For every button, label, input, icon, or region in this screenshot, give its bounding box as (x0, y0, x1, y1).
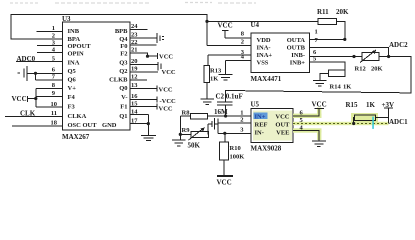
svg-text:VCC: VCC (162, 69, 176, 76)
svg-text:GND: GND (102, 122, 117, 129)
svg-text:OPOUT: OPOUT (68, 43, 92, 50)
svg-text:V-: V- (121, 94, 127, 101)
svg-text:VCC: VCC (159, 106, 173, 113)
svg-text:R10: R10 (230, 145, 241, 152)
svg-text:ADC0: ADC0 (17, 55, 36, 63)
svg-text:INB: INB (68, 28, 80, 35)
svg-text:ADC1: ADC1 (389, 118, 408, 126)
svg-text:20K: 20K (336, 8, 349, 16)
svg-text:2: 2 (240, 117, 243, 124)
svg-text:F2: F2 (120, 51, 127, 58)
svg-text:1: 1 (52, 25, 55, 32)
svg-text:F0: F0 (120, 43, 127, 50)
svg-text:INB+: INB+ (290, 60, 306, 67)
svg-text:R9: R9 (182, 127, 191, 134)
svg-text:OPIN: OPIN (68, 51, 85, 58)
svg-text:U3: U3 (62, 15, 71, 23)
svg-text:VCC: VCC (159, 54, 173, 61)
svg-text:VCC: VCC (218, 22, 233, 30)
svg-text:16: 16 (131, 93, 138, 100)
svg-text:V+: V+ (68, 85, 77, 92)
svg-text:VCC: VCC (312, 101, 327, 109)
svg-text:Q0: Q0 (119, 85, 127, 92)
svg-text:ADC2: ADC2 (389, 41, 408, 49)
svg-text:23: 23 (131, 32, 138, 39)
svg-text:Q3: Q3 (119, 60, 128, 67)
svg-text:OUT: OUT (275, 122, 290, 129)
svg-text:2: 2 (52, 33, 55, 40)
svg-text:C2 0.1uF: C2 0.1uF (216, 93, 243, 101)
svg-text:18: 18 (51, 120, 58, 127)
svg-text:VCC: VCC (275, 114, 289, 121)
svg-text:VSS: VSS (257, 60, 269, 67)
svg-text:11: 11 (51, 110, 57, 117)
svg-text:1: 1 (315, 29, 318, 36)
svg-text:OSC OUT: OSC OUT (68, 122, 98, 129)
svg-text:CLKB: CLKB (109, 77, 128, 84)
svg-text:Q1: Q1 (119, 113, 127, 120)
svg-text:VEE: VEE (276, 130, 289, 137)
svg-text:U5: U5 (251, 101, 260, 109)
svg-text:1K: 1K (210, 76, 218, 83)
svg-text:VCC: VCC (217, 179, 232, 187)
svg-text:Q2: Q2 (119, 68, 127, 75)
svg-text:F1: F1 (120, 104, 127, 111)
svg-text:50K: 50K (188, 142, 201, 150)
svg-text:R15: R15 (346, 101, 359, 109)
svg-text:CLK: CLK (20, 110, 36, 118)
svg-text:REF: REF (255, 122, 268, 129)
svg-text:R13: R13 (210, 68, 222, 75)
svg-text:MAX4471: MAX4471 (251, 75, 282, 83)
svg-text:R11: R11 (317, 8, 329, 16)
svg-text:Q6: Q6 (68, 77, 77, 84)
svg-text:2: 2 (241, 39, 244, 46)
svg-text:21: 21 (131, 47, 138, 54)
svg-text:OUTA: OUTA (287, 37, 306, 44)
svg-text:F3: F3 (68, 104, 76, 111)
svg-text:CLKA: CLKA (68, 113, 87, 120)
svg-text:100K: 100K (230, 154, 245, 161)
svg-text:MAX267: MAX267 (62, 133, 90, 141)
svg-text:INA: INA (68, 60, 80, 67)
svg-text:IN-: IN- (255, 130, 264, 137)
svg-text:+3V: +3V (382, 101, 395, 109)
svg-text:Q5: Q5 (68, 68, 77, 75)
svg-text:INA-: INA- (257, 45, 271, 52)
svg-text:-VCC: -VCC (160, 98, 177, 105)
svg-text:IN+: IN+ (255, 114, 266, 121)
svg-text:U4: U4 (251, 21, 260, 29)
svg-text:20K: 20K (371, 66, 383, 73)
svg-text:F4: F4 (68, 94, 76, 101)
svg-text:INA+: INA+ (257, 52, 273, 59)
svg-text:VCC: VCC (12, 95, 27, 103)
svg-text:OUTB: OUTB (287, 45, 306, 52)
svg-text:MAX9028: MAX9028 (251, 145, 282, 153)
svg-text:INB-: INB- (291, 52, 305, 59)
svg-text:1K: 1K (343, 84, 351, 91)
svg-text:R12: R12 (355, 66, 366, 73)
svg-text:VCC: VCC (159, 87, 173, 94)
svg-text:Q4: Q4 (119, 36, 128, 43)
svg-text:BPB: BPB (115, 28, 128, 35)
svg-text:1: 1 (240, 110, 243, 117)
svg-text:1K: 1K (366, 101, 376, 109)
svg-text:R14: R14 (330, 84, 342, 91)
svg-text:BPA: BPA (68, 36, 81, 43)
svg-text:VDD: VDD (257, 37, 271, 44)
svg-text:R8: R8 (182, 110, 191, 117)
